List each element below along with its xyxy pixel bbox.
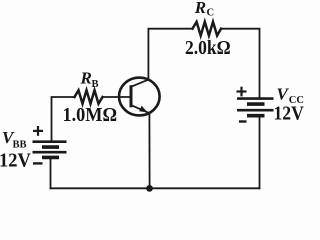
wire top-left segment (collector corner to R_C) — [148, 29, 192, 80]
svg-text:2.0kΩ: 2.0kΩ — [185, 37, 231, 60]
label V_BB — [2, 128, 27, 151]
wire top-right segment (R_C to V_CC top) — [221, 29, 260, 98]
svg-text:B: B — [92, 79, 99, 90]
battery V_BB — [33, 142, 67, 158]
wire base segment (R_B to transistor base bar) — [103, 96, 132, 98]
wire left vertical (bottom rail to V_BB bottom) — [50, 158, 52, 188]
battery V_CC — [237, 99, 274, 116]
svg-text:12V: 12V — [0, 150, 31, 172]
label R_B — [80, 69, 99, 91]
svg-text:C: C — [207, 8, 215, 19]
resistor R_C — [193, 22, 222, 36]
wire emitter vertical (transistor to junction) — [148, 113, 150, 189]
svg-text:R: R — [80, 69, 92, 88]
label R_C — [194, 0, 214, 19]
svg-text:R: R — [194, 0, 206, 17]
battery V_BB minus sign — [33, 162, 43, 164]
battery V_BB plus sign — [33, 126, 43, 136]
label V_CC — [277, 84, 304, 106]
battery V_CC plus sign — [237, 87, 247, 97]
resistor R_B — [75, 90, 103, 104]
svg-text:1.0MΩ: 1.0MΩ — [63, 104, 118, 126]
wire right-bottom segment (V_CC bottom to bottom-right corner) — [259, 117, 261, 189]
battery V_CC minus sign — [239, 120, 247, 122]
wire bottom rail — [51, 187, 260, 189]
svg-text:V: V — [277, 84, 290, 103]
junction node (emitter to bottom rail) — [146, 185, 153, 192]
wire left vertical (V_BB top to base corner) — [52, 97, 75, 141]
svg-text:12V: 12V — [274, 103, 305, 126]
transistor Q1 — [119, 78, 160, 116]
